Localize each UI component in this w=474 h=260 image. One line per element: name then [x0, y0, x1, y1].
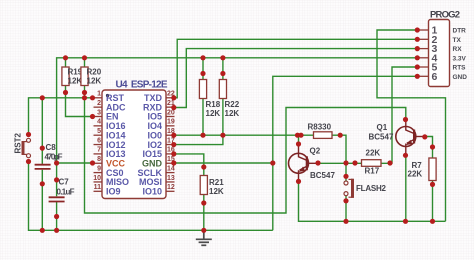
junction R17 pins	[352, 160, 392, 165]
wire IC GND row	[174, 162, 273, 164]
PROG2 pin stubs	[416, 30, 429, 76]
svg-text:GND: GND	[453, 74, 468, 81]
PROG2 pin numbers 1-6	[432, 25, 438, 83]
wire R20 leads	[84, 58, 86, 98]
junction GND row	[171, 160, 275, 165]
connector PROG2 box	[429, 20, 450, 87]
svg-text:U4 ESP-12E: U4 ESP-12E	[116, 80, 168, 91]
junction PROG2 pins	[415, 27, 420, 79]
wire Q2 emitter to bottom rail	[299, 181, 446, 222]
resistor R18 12K	[199, 80, 206, 99]
junction C8 pins	[40, 146, 45, 187]
wire Q1 base to R7	[424, 137, 433, 159]
svg-text:5: 5	[97, 128, 101, 135]
U4 right pin stubs pins 22-12	[166, 98, 175, 192]
U4 right pin numbers 22-12	[167, 91, 175, 192]
wire PROG2 GND down	[273, 76, 417, 230]
svg-text:6: 6	[432, 71, 438, 83]
junction RST row	[40, 95, 95, 100]
svg-text:12K: 12K	[209, 187, 224, 196]
IC U4 ESP-12E body	[102, 90, 166, 199]
svg-text:12: 12	[167, 184, 175, 191]
junction FLASH2 leads	[343, 160, 348, 224]
U4 left pin names	[106, 93, 129, 197]
wire R21 bottom lead	[203, 195, 205, 231]
wire RXD to PROG2 RX	[173, 49, 417, 108]
resistor R8330	[314, 132, 333, 139]
svg-text:10: 10	[93, 175, 101, 182]
svg-text:BC547: BC547	[310, 171, 335, 180]
wire C8 column	[41, 98, 43, 231]
wire R19 to EN	[66, 86, 94, 117]
junction VCC row	[54, 160, 95, 165]
svg-text:R20: R20	[87, 68, 102, 77]
wire R8330 right to node	[332, 135, 346, 163]
wire 3.3V rail	[57, 58, 417, 163]
junction 3.3V rail	[63, 55, 226, 60]
junction R18 R22 pin tops	[200, 71, 225, 76]
transistor Q2 BC547	[289, 146, 318, 180]
svg-text:IO10: IO10	[142, 187, 162, 197]
svg-text:R8330: R8330	[308, 122, 332, 131]
svg-text:BC547: BC547	[369, 133, 394, 142]
junction TXD RXD pins	[171, 95, 176, 110]
U4 pin-1 marker	[106, 94, 109, 97]
resistor R22 12K	[219, 80, 226, 99]
wire IO15 to R21	[174, 154, 204, 176]
wire R17 row	[317, 162, 392, 164]
svg-text:C8: C8	[46, 143, 57, 152]
svg-text:R17: R17	[365, 167, 380, 176]
svg-text:6: 6	[97, 137, 101, 144]
svg-text:14: 14	[167, 165, 175, 172]
svg-text:Q2: Q2	[310, 147, 321, 156]
svg-text:R22: R22	[225, 100, 240, 109]
U4 right pin names	[138, 93, 163, 197]
ground symbol	[196, 231, 212, 245]
capacitor C8 470pF	[35, 165, 51, 169]
wire Q2 collector lead	[298, 135, 300, 145]
wire RTS to R17	[390, 67, 417, 163]
svg-text:12K: 12K	[206, 109, 221, 118]
svg-text:DTR: DTR	[453, 28, 467, 35]
resistor R21 12K	[200, 176, 207, 195]
wire RST row	[29, 98, 94, 135]
wire R7 bottom lead	[432, 181, 434, 222]
svg-text:C7: C7	[59, 178, 70, 187]
wire R18 column	[202, 58, 204, 135]
capacitor C7 0.1uF	[49, 197, 65, 201]
svg-text:TX: TX	[453, 37, 462, 44]
U4 left pin numbers 1-11	[93, 91, 101, 192]
svg-text:20: 20	[167, 109, 175, 116]
wire FLASH2 bottom lead	[345, 196, 347, 222]
svg-text:11: 11	[94, 184, 102, 191]
junction RST2 contacts	[26, 132, 31, 164]
wire bottom GND rail	[29, 162, 273, 231]
svg-text:0.1uF: 0.1uF	[57, 188, 75, 197]
svg-text:8: 8	[97, 156, 101, 163]
svg-text:FLASH2: FLASH2	[356, 184, 387, 193]
svg-text:RX: RX	[453, 46, 463, 53]
wire VCC row	[57, 162, 94, 164]
svg-text:IO9: IO9	[106, 187, 121, 197]
junction EN pin	[90, 114, 95, 119]
pushbutton FLASH2	[344, 179, 353, 198]
junction IO2 pin	[171, 142, 176, 147]
wire IO0 row	[174, 134, 314, 136]
junction IO15 pin	[171, 151, 176, 156]
resistor R17 22K	[362, 160, 382, 167]
svg-text:3.3V: 3.3V	[453, 55, 467, 62]
resistor R19 12K	[62, 67, 69, 86]
wire RST to Q1 collector	[85, 98, 406, 213]
wire R19 top lead	[65, 58, 67, 67]
svg-text:RST2: RST2	[14, 133, 23, 154]
junction Q1 leads	[403, 117, 428, 224]
wire DTR net	[377, 30, 446, 221]
svg-text:12K: 12K	[68, 77, 83, 86]
U4 left pin stubs pins 1-11	[94, 98, 103, 192]
svg-text:22K: 22K	[366, 149, 381, 158]
svg-text:3: 3	[97, 109, 101, 116]
svg-text:7: 7	[97, 147, 101, 154]
svg-text:22K: 22K	[408, 169, 423, 178]
svg-text:PROG2: PROG2	[430, 10, 460, 21]
wire C7 column	[56, 163, 58, 230]
junction C7 pins	[54, 177, 59, 219]
junction IO0 row	[171, 133, 303, 138]
svg-text:Q1: Q1	[377, 123, 388, 132]
junction R19 R20 pin bottoms	[63, 90, 87, 95]
junction Q2 leads	[296, 141, 321, 184]
PROG2 pin labels	[453, 28, 468, 81]
resistor R7 22K	[429, 158, 436, 181]
wire TXD to PROG2 TX	[173, 39, 417, 98]
junction R21 pins	[201, 164, 206, 205]
svg-text:RTS: RTS	[453, 65, 467, 72]
junction R7 pins	[430, 144, 435, 224]
svg-text:13: 13	[167, 175, 175, 182]
svg-text:470pF: 470pF	[45, 153, 63, 162]
svg-text:12K: 12K	[87, 77, 102, 86]
pushbutton RST2	[23, 138, 31, 157]
wire R22 column to IO2	[174, 58, 223, 145]
wire FLASH2 top lead	[345, 163, 347, 181]
wire Q1 emitter lead	[405, 154, 407, 221]
svg-text:9: 9	[97, 165, 101, 172]
svg-text:R21: R21	[209, 178, 224, 187]
svg-text:19: 19	[167, 119, 175, 126]
svg-text:R18: R18	[206, 100, 221, 109]
svg-text:4: 4	[97, 119, 101, 126]
resistor R20 12K	[81, 67, 88, 86]
junction bottom rail	[40, 228, 207, 233]
svg-text:2: 2	[97, 100, 101, 107]
svg-text:1: 1	[97, 91, 101, 98]
junction R8330 right	[338, 133, 343, 138]
transistor Q1 BC547	[396, 120, 425, 154]
svg-text:12K: 12K	[225, 109, 240, 118]
